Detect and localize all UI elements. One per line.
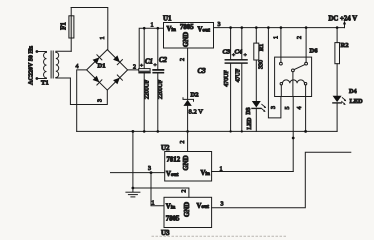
svg-text:+: +: [140, 63, 143, 69]
junction C4 top: [241, 26, 244, 29]
svg-text:T1: T1: [41, 80, 49, 87]
junction below rail on pin 5 wire: [292, 137, 295, 140]
svg-text:R1: R1: [259, 44, 265, 51]
svg-text:3: 3: [221, 202, 224, 208]
junction C3 bottom: [229, 130, 231, 132]
wire relay left contact: [280, 28, 282, 63]
bridge rectifier D1 diamond: [87, 50, 128, 91]
svg-text:47UF: 47UF: [236, 68, 242, 82]
wire relay coil feed hook: [268, 28, 281, 118]
svg-text:1: 1: [152, 201, 155, 207]
regulator U2 7812 box: [165, 152, 212, 182]
svg-text:Vout: Vout: [198, 27, 211, 34]
resistor R2: [336, 28, 338, 43]
svg-text:3: 3: [148, 166, 151, 172]
svg-text:8.2 V: 8.2 V: [189, 109, 204, 116]
diode D1 bottom-left: [93, 76, 100, 83]
fuse F1: [69, 16, 74, 38]
svg-text:3: 3: [271, 106, 277, 109]
svg-text:2: 2: [180, 58, 186, 61]
svg-text:2: 2: [297, 36, 303, 39]
wire U2 Vin from relay pin 5: [212, 171, 294, 173]
junction coil pin 4 at 0V rail: [304, 130, 307, 133]
svg-text:4: 4: [76, 64, 79, 70]
regulator U3 7805 box: [164, 197, 212, 227]
svg-text:C1: C1: [145, 59, 153, 66]
junction C3 top: [229, 26, 232, 29]
junction C2 bottom: [157, 130, 160, 133]
svg-text:2200UF: 2200UF: [145, 79, 151, 99]
ground: [132, 188, 134, 192]
svg-text:C3: C3: [223, 49, 231, 56]
wire relay common to U2 Vin: [292, 72, 294, 97]
svg-text:D2: D2: [191, 92, 200, 99]
resistor R1: [255, 28, 257, 43]
diode D1 top-left: [93, 57, 100, 64]
relay D6 coil: [280, 83, 282, 85]
wire U2 GND up to 0V rail: [187, 131, 189, 151]
transformer T1 secondary winding: [56, 51, 71, 78]
junction hook top: [267, 26, 270, 29]
capacitor C1: [143, 28, 145, 68]
svg-text:Vout: Vout: [166, 171, 179, 178]
junction C1 top: [143, 27, 146, 30]
svg-text:+: +: [244, 53, 247, 59]
AC source terminal bottom: [36, 77, 39, 80]
svg-text:C3: C3: [198, 67, 207, 75]
svg-text:+: +: [154, 63, 157, 69]
transformer T1 primary winding: [37, 52, 47, 79]
svg-text:7805: 7805: [166, 216, 180, 223]
svg-text:5: 5: [285, 107, 291, 110]
wire secondary bottom to bridge node 3: [70, 78, 107, 105]
svg-text:AC220V 50 Hz: AC220V 50 Hz: [29, 46, 35, 85]
DC +24V output arrow: [344, 23, 346, 28]
svg-text:Vout: Vout: [197, 203, 210, 210]
svg-text:3: 3: [98, 99, 104, 102]
wire 0V bottom rail: [77, 130, 337, 132]
svg-text:LED: LED: [350, 98, 364, 105]
AC source terminal top: [36, 50, 39, 53]
svg-text:330: 330: [259, 60, 265, 69]
svg-text:2: 2: [180, 141, 186, 144]
svg-text:D6: D6: [310, 48, 319, 55]
wire node 2 up to U1 Vin: [128, 28, 164, 70]
junction C1 bottom: [143, 130, 146, 133]
svg-text:470UF: 470UF: [224, 70, 230, 87]
svg-text:DC +24 V: DC +24 V: [329, 16, 358, 23]
faint caption remnant: [152, 235, 288, 237]
svg-text:4: 4: [297, 107, 303, 110]
svg-text:F1: F1: [61, 22, 68, 30]
zener diode D2: [183, 98, 194, 102]
svg-text:1: 1: [220, 167, 223, 173]
relay D6 box: [275, 57, 312, 96]
svg-text:1: 1: [273, 36, 279, 39]
wire U3 GND to ground node: [133, 188, 189, 197]
capacitor C2: [157, 28, 159, 69]
svg-text:GND: GND: [183, 155, 190, 170]
svg-text:U2: U2: [161, 144, 170, 152]
svg-text:D4: D4: [349, 88, 357, 95]
wire U2 Vout +12V output stub: [111, 172, 165, 174]
wire through fuse to transformer secondary top: [70, 8, 72, 52]
wire relay right contact: [305, 28, 307, 63]
svg-text:2200UF: 2200UF: [158, 79, 164, 99]
capacitor C4: [241, 28, 243, 60]
wire U3 Vout +5V output: [212, 152, 351, 208]
transformer T1 core: [50, 51, 52, 78]
svg-text:D1: D1: [98, 63, 106, 70]
svg-text:LED: LED: [247, 118, 253, 130]
wire junction down to U3 Vin: [151, 173, 164, 206]
svg-text:C2: C2: [159, 57, 168, 64]
relay D6 armature: [294, 65, 305, 70]
junction ground branch at rail: [132, 130, 135, 133]
wire U1 Vout +24V top rail: [214, 27, 345, 29]
junction ground node: [132, 187, 135, 190]
wire relay coil right to 0V rail: [305, 85, 307, 131]
LED D4: [333, 96, 342, 102]
junction U2 Vout to U3 Vin: [150, 171, 153, 174]
regulator U1 7805 box: [164, 23, 214, 49]
wire from fuse top to bridge node 1: [71, 8, 108, 50]
wire 0V rail down to ground node: [132, 131, 134, 188]
svg-text:R2: R2: [341, 42, 350, 49]
svg-text:Vin: Vin: [201, 170, 210, 177]
svg-text:U1: U1: [163, 15, 172, 23]
junction D2 at 0V rail: [186, 130, 189, 133]
junction R1 top: [255, 26, 258, 29]
svg-text:7812: 7812: [167, 157, 181, 164]
svg-text:Vin: Vin: [166, 204, 175, 211]
LED D3: [252, 101, 261, 108]
junction R2 top: [336, 26, 339, 29]
svg-text:GND: GND: [183, 32, 190, 47]
svg-text:7805: 7805: [180, 24, 194, 31]
svg-text:2: 2: [182, 190, 188, 193]
junction C2 top: [157, 27, 160, 30]
svg-text:Vin: Vin: [167, 26, 176, 33]
diode D1 top-right: [113, 55, 120, 62]
wire node 4 down to 0V rail: [77, 70, 87, 131]
svg-text:1: 1: [151, 23, 154, 29]
svg-text:C4: C4: [235, 49, 243, 56]
wire U1 GND down to zener D2: [187, 48, 189, 99]
svg-text:D3: D3: [246, 107, 252, 114]
svg-text:GND: GND: [184, 202, 191, 217]
svg-text:1: 1: [100, 37, 106, 40]
junction left contact top: [280, 26, 283, 29]
capacitor C3: [230, 28, 232, 60]
svg-text:3: 3: [218, 22, 221, 28]
junction C4 bottom: [241, 130, 243, 132]
diode D1 bottom-right: [113, 78, 120, 85]
relay D6 contact terminals: [280, 62, 283, 65]
junction right contact top: [305, 26, 308, 29]
